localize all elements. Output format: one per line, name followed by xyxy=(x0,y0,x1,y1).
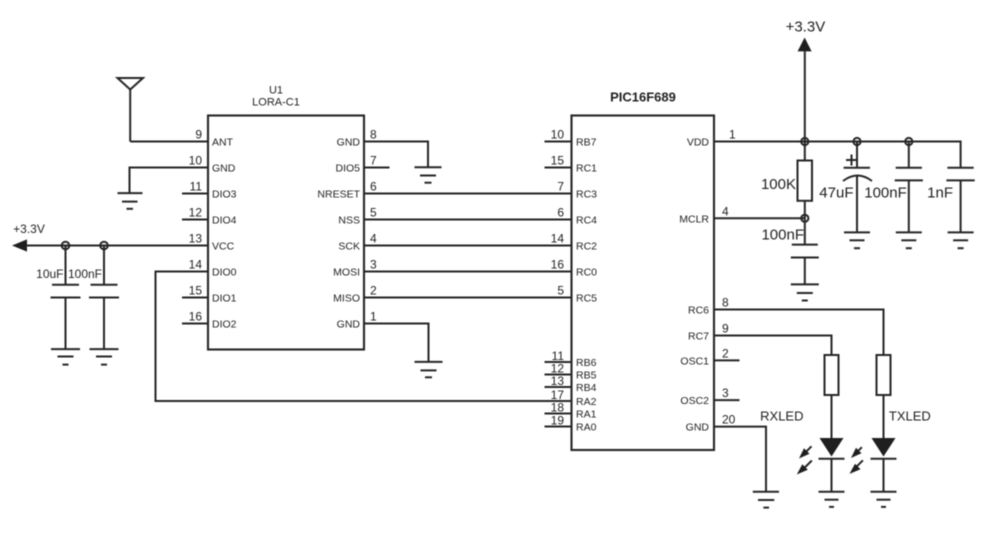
svg-text:VDD: VDD xyxy=(687,137,710,149)
svg-text:14: 14 xyxy=(189,258,203,272)
svg-text:10: 10 xyxy=(551,128,565,142)
wire antenna to ANT pin9 xyxy=(130,141,208,143)
svg-text:RC4: RC4 xyxy=(576,215,597,227)
svg-text:7: 7 xyxy=(557,180,564,194)
pin 12 DIO4 stub xyxy=(182,219,208,221)
svg-text:+3.3V: +3.3V xyxy=(786,19,826,36)
ground under C5 xyxy=(896,232,922,248)
wire NSS to RC4 xyxy=(364,219,572,221)
svg-text:DIO1: DIO1 xyxy=(212,293,237,305)
+3.3V left arrow xyxy=(12,239,27,251)
node junction MCLR xyxy=(801,215,808,222)
ground under C3 xyxy=(791,284,819,300)
svg-text:11: 11 xyxy=(190,180,203,194)
capacitor C6 1nF xyxy=(946,168,974,232)
svg-text:RB6: RB6 xyxy=(576,357,597,369)
svg-text:2: 2 xyxy=(722,346,729,360)
svg-text:47uF: 47uF xyxy=(819,185,853,202)
wire SCK to RC2 xyxy=(364,245,572,247)
svg-text:4: 4 xyxy=(370,232,377,246)
ground under C2 xyxy=(90,349,119,365)
svg-text:1: 1 xyxy=(370,310,377,324)
svg-text:20: 20 xyxy=(722,413,736,427)
capacitor C1 10uF xyxy=(51,246,81,350)
wire MCLR to 100K node xyxy=(714,217,805,219)
pin 13 RB4 stub xyxy=(545,386,572,388)
capacitor C3 100nF (MCLR) xyxy=(791,245,819,285)
svg-text:U1: U1 xyxy=(269,85,283,97)
wire RC6 to TX resistor xyxy=(714,310,884,356)
resistor R3 (TXLED) xyxy=(877,355,891,395)
LED D1 RXLED xyxy=(819,438,845,492)
wire RC7 to RX resistor xyxy=(714,336,832,356)
svg-text:GND: GND xyxy=(337,319,361,331)
svg-text:NSS: NSS xyxy=(338,215,360,227)
pin 15 DIO1 stub xyxy=(182,297,208,299)
svg-text:100nF: 100nF xyxy=(761,227,804,244)
pin 7 DIO5 stub xyxy=(364,167,390,169)
pin 8 wire to ground xyxy=(364,142,428,168)
svg-text:PIC16F689: PIC16F689 xyxy=(610,90,676,105)
svg-text:6: 6 xyxy=(370,180,377,194)
ground under C4 xyxy=(844,232,870,248)
+3.3V right arrow xyxy=(798,38,812,52)
svg-text:100nF: 100nF xyxy=(68,267,102,281)
node junction C2 xyxy=(100,242,108,250)
svg-text:16: 16 xyxy=(189,310,203,324)
pin 19 RA0 stub xyxy=(545,426,572,428)
svg-text:RC3: RC3 xyxy=(576,189,597,201)
svg-text:15: 15 xyxy=(189,284,203,298)
resistor R1 100K xyxy=(798,161,813,201)
svg-text:5: 5 xyxy=(370,206,377,220)
svg-text:RC7: RC7 xyxy=(688,331,709,343)
svg-text:+3.3V: +3.3V xyxy=(13,222,45,236)
svg-text:RA1: RA1 xyxy=(576,409,597,421)
LED D1 emission arrows xyxy=(797,446,812,474)
pin 12 RB5 stub xyxy=(545,374,572,376)
pin 3 OSC2 stub xyxy=(714,399,740,401)
svg-text:10: 10 xyxy=(189,154,203,168)
ground under C1 xyxy=(51,349,80,365)
svg-text:LORA-C1: LORA-C1 xyxy=(252,97,300,109)
svg-text:MCLR: MCLR xyxy=(679,213,709,225)
node junction 47uF xyxy=(853,138,860,145)
svg-text:RB4: RB4 xyxy=(576,382,597,394)
svg-text:1nF: 1nF xyxy=(927,185,953,202)
svg-text:DIO4: DIO4 xyxy=(212,215,237,227)
ground under C6 xyxy=(948,232,974,248)
svg-text:MISO: MISO xyxy=(333,293,360,305)
ground under pin 10 xyxy=(118,193,143,209)
svg-text:DIO2: DIO2 xyxy=(212,319,237,331)
ground at pin 1 xyxy=(415,362,443,377)
ground under pin 20 xyxy=(753,492,779,508)
IC U2 PIC16F689 box xyxy=(572,116,715,451)
wire MISO to RC5 xyxy=(364,297,572,299)
svg-text:6: 6 xyxy=(557,206,564,220)
plus sign 47uF xyxy=(846,155,857,166)
svg-text:3: 3 xyxy=(370,258,377,272)
svg-text:10uF: 10uF xyxy=(36,267,63,281)
wire NRESET to RC3 xyxy=(364,193,572,195)
svg-text:15: 15 xyxy=(551,154,565,168)
pin 10 RB7 stub xyxy=(545,141,572,143)
wire VDD rail xyxy=(714,142,961,168)
svg-text:RC0: RC0 xyxy=(576,267,597,279)
svg-text:8: 8 xyxy=(370,128,377,142)
wire DIO0 to RA2 xyxy=(156,272,572,402)
svg-text:9: 9 xyxy=(722,322,729,336)
LED D2 emission arrows xyxy=(850,447,863,474)
svg-text:RC5: RC5 xyxy=(576,293,597,305)
svg-text:RA2: RA2 xyxy=(576,396,597,408)
IC U1 LORA-C1 box xyxy=(208,116,364,350)
pin 2 OSC1 stub xyxy=(714,359,740,361)
svg-text:MOSI: MOSI xyxy=(333,267,360,279)
svg-text:16: 16 xyxy=(551,258,565,272)
capacitor C2 100nF xyxy=(89,246,119,350)
ground under D1 xyxy=(819,492,845,507)
pin 1 wire to ground xyxy=(364,324,429,362)
svg-text:DIO0: DIO0 xyxy=(212,267,237,279)
svg-text:SCK: SCK xyxy=(338,241,360,253)
resistor R2 (RXLED) xyxy=(825,355,839,395)
svg-text:TXLED: TXLED xyxy=(889,409,931,424)
svg-text:ANT: ANT xyxy=(212,137,234,149)
svg-text:GND: GND xyxy=(337,137,361,149)
pin 11 RB6 stub xyxy=(545,361,572,363)
svg-text:RB5: RB5 xyxy=(576,370,597,382)
svg-text:4: 4 xyxy=(722,204,729,218)
ground under D2 xyxy=(871,492,897,507)
svg-text:OSC1: OSC1 xyxy=(680,355,709,367)
svg-text:GND: GND xyxy=(212,163,236,175)
svg-text:DIO3: DIO3 xyxy=(212,189,237,201)
svg-text:100K: 100K xyxy=(761,176,796,193)
wire 100K to MCLR node xyxy=(804,201,806,245)
wire R2 to LED D1 xyxy=(831,395,833,438)
svg-text:14: 14 xyxy=(551,232,565,246)
wire R3 to LED D2 xyxy=(883,395,885,438)
node junction VDD/100K xyxy=(801,138,808,145)
svg-text:19: 19 xyxy=(551,414,565,428)
svg-text:GND: GND xyxy=(686,422,710,434)
svg-text:RA0: RA0 xyxy=(576,422,597,434)
svg-text:VCC: VCC xyxy=(212,241,235,253)
svg-text:RC2: RC2 xyxy=(576,241,597,253)
wire left rail to VCC xyxy=(26,245,208,247)
wire +3.3V down to VDD rail xyxy=(804,51,806,160)
svg-text:RC1: RC1 xyxy=(576,163,597,175)
svg-text:5: 5 xyxy=(557,284,564,298)
svg-text:1: 1 xyxy=(729,128,736,142)
node junction 100nF right xyxy=(905,138,912,145)
svg-text:7: 7 xyxy=(370,154,377,168)
pin 11 DIO3 stub xyxy=(182,193,208,195)
svg-text:NRESET: NRESET xyxy=(317,189,360,201)
svg-text:DIO5: DIO5 xyxy=(335,163,360,175)
pin 16 DIO2 stub xyxy=(182,323,208,325)
ground at pin 8 xyxy=(415,167,442,183)
wire MOSI to RC0 xyxy=(364,271,572,273)
svg-text:8: 8 xyxy=(722,296,729,310)
pin 15 RC1 stub xyxy=(545,167,572,169)
svg-text:18: 18 xyxy=(551,401,565,415)
capacitor C4 47uF polarized xyxy=(843,142,872,233)
svg-text:RB7: RB7 xyxy=(576,137,597,149)
pin 18 RA1 stub xyxy=(545,413,572,415)
svg-text:2: 2 xyxy=(370,284,377,298)
svg-text:3: 3 xyxy=(722,386,729,400)
capacitor C5 100nF xyxy=(895,142,923,233)
svg-text:RC6: RC6 xyxy=(688,305,709,317)
svg-text:9: 9 xyxy=(195,128,202,142)
svg-text:12: 12 xyxy=(189,206,203,220)
LED D2 TXLED xyxy=(871,438,897,492)
svg-text:OSC2: OSC2 xyxy=(680,395,709,407)
svg-text:100nF: 100nF xyxy=(864,185,907,202)
svg-text:13: 13 xyxy=(551,374,565,388)
svg-text:RXLED: RXLED xyxy=(760,409,803,424)
antenna ANT1 xyxy=(118,78,144,142)
node junction C1 xyxy=(62,242,70,250)
svg-text:13: 13 xyxy=(189,232,203,246)
pin 10 wire to ground xyxy=(130,168,209,194)
pin 20 wire to ground xyxy=(714,427,766,492)
